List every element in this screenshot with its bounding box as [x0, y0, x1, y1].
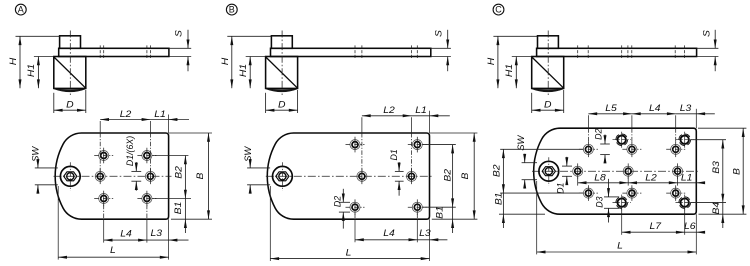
- countersunk hole A top-left: [99, 151, 109, 161]
- clamp body block side view B: [266, 57, 298, 89]
- dimension D ext lines A: [53, 93, 55, 113]
- dimension L3 C: [676, 113, 697, 115]
- dimension H1 B: [249, 57, 251, 89]
- hole centerline tick on bar at x=150: [149, 45, 151, 59]
- hex-socket boss C: [539, 161, 559, 181]
- svg-text:L2: L2: [383, 105, 395, 116]
- tapped hole C top 1: [616, 134, 628, 146]
- svg-text:B2: B2: [492, 164, 503, 177]
- dimension SW ext lines B: [247, 167, 270, 169]
- svg-text:D1: D1: [556, 182, 566, 193]
- dimension B2/B1/B ext lines B: [423, 144, 456, 146]
- dimension L2 C: [628, 182, 677, 184]
- serrated bottom face of block A: [54, 89, 86, 92]
- svg-text:SW: SW: [516, 134, 526, 151]
- dimension H A: [19, 36, 21, 88]
- svg-text:A: A: [18, 4, 24, 14]
- dimension H1 ext line C: [512, 56, 532, 58]
- dimension SW B: [249, 159, 251, 168]
- dimension B4 C: [722, 203, 724, 215]
- svg-text:L4: L4: [120, 229, 132, 240]
- countersunk hole A bottom-right: [142, 194, 152, 204]
- serrated bottom face of block C: [532, 89, 564, 92]
- view label circled C: [493, 4, 504, 15]
- svg-text:D: D: [278, 100, 285, 111]
- countersunk hole C middle 2: [623, 166, 633, 176]
- dimension L ext line A: [57, 186, 59, 260]
- dimension L ext line B: [269, 186, 271, 261]
- dimension L5 C: [588, 113, 632, 115]
- dimension D1/(6X) ext lines: [131, 170, 141, 172]
- countersunk hole C middle 1: [573, 166, 583, 176]
- svg-text:B: B: [732, 168, 743, 175]
- svg-text:L5: L5: [605, 103, 617, 114]
- hole centerline tick on bar at x=355: [354, 45, 356, 59]
- svg-text:D1/(6X): D1/(6X): [125, 136, 135, 166]
- hole centerline tick on bar at x=417: [416, 45, 418, 59]
- countersunk hole C top row 2: [627, 144, 637, 154]
- plate horizontal centerline B: [266, 175, 433, 177]
- plate bar side view B: [271, 48, 431, 56]
- dimension H ext line B: [227, 35, 271, 37]
- svg-text:SW: SW: [31, 145, 41, 162]
- dimension D1/(6X): [135, 162, 137, 171]
- dimension B A: [208, 133, 210, 219]
- hole centerline tick on bar at x=147: [146, 45, 148, 59]
- dimension D C: [532, 109, 564, 111]
- svg-text:L: L: [346, 248, 352, 259]
- dimension D1: [566, 157, 568, 166]
- svg-text:D2: D2: [333, 196, 343, 207]
- svg-text:H1: H1: [26, 64, 37, 77]
- dimension D A: [54, 109, 86, 111]
- dimension S A: [187, 30, 189, 49]
- svg-text:B: B: [195, 172, 206, 179]
- dimension D3 ext lines: [604, 196, 619, 198]
- dimension L1 C: [678, 182, 697, 184]
- dimension L1 A: [150, 119, 168, 121]
- svg-text:L4: L4: [649, 103, 661, 114]
- countersunk hole C bottom row 3: [671, 188, 681, 198]
- svg-text:D3: D3: [595, 196, 605, 207]
- svg-text:S: S: [174, 30, 185, 37]
- countersunk hole A bottom-left: [99, 194, 109, 204]
- tapped hole C top 2: [679, 134, 691, 146]
- dimension L4 B: [355, 239, 417, 241]
- svg-text:SW: SW: [243, 145, 253, 162]
- mounting plate outline top view A: [55, 133, 168, 219]
- dimension SW A: [37, 159, 39, 168]
- dimension B3/B4/B ext lines C: [691, 139, 726, 141]
- dimension S ext lines C: [697, 47, 719, 49]
- dimension H1 ext line B: [246, 56, 266, 58]
- svg-text:L3: L3: [151, 229, 163, 240]
- screw head side view B: [271, 36, 292, 49]
- dimension L2 B: [362, 115, 412, 117]
- dimension S C: [714, 30, 716, 49]
- hole centerline tick on bar at x=104: [103, 45, 105, 59]
- svg-text:H: H: [220, 57, 231, 65]
- svg-text:L: L: [617, 241, 623, 252]
- svg-text:H1: H1: [504, 64, 515, 77]
- svg-text:C: C: [495, 4, 502, 14]
- dimension L8/L2/L1 ext lines C: [577, 177, 579, 186]
- dimension B3 C: [722, 140, 724, 203]
- dimension B1 B: [452, 207, 454, 219]
- dimension D2 ext lines: [600, 143, 610, 145]
- dimension H1 ext line A: [34, 56, 54, 58]
- svg-text:L3: L3: [680, 103, 692, 114]
- dimension L6 C: [685, 231, 697, 233]
- svg-text:B3: B3: [711, 161, 722, 174]
- svg-text:B1: B1: [173, 202, 184, 215]
- dimension B C: [742, 128, 744, 214]
- dimension D3: [608, 179, 610, 197]
- svg-text:D: D: [544, 100, 551, 111]
- dimension B1 C: [502, 193, 504, 214]
- svg-text:B: B: [460, 172, 471, 179]
- dimension L7/L6 ext lines C: [621, 209, 623, 214]
- view label circled A: [15, 4, 26, 15]
- countersunk hole A middle-left: [95, 171, 105, 181]
- dimension L3 A: [147, 239, 169, 241]
- hex-socket boss A: [60, 166, 80, 186]
- plate bar side view C: [537, 48, 697, 56]
- hole centerline tick on bar at x=588: [587, 45, 589, 59]
- dimension H ext line C: [493, 35, 537, 37]
- svg-text:L1: L1: [681, 173, 693, 184]
- dimension L ext line C: [536, 181, 538, 254]
- countersunk hole B top-right: [412, 140, 422, 150]
- dimension S ext lines A: [169, 47, 191, 49]
- dimension D2: [342, 189, 344, 203]
- dimension D1 ext lines: [562, 165, 572, 167]
- dimension SW ext lines A: [35, 167, 58, 169]
- hole centerline tick on bar at x=675: [674, 45, 676, 59]
- view label circled B: [226, 4, 237, 15]
- countersunk hole C top row 1: [583, 144, 593, 154]
- dimension L B: [270, 258, 429, 260]
- dimension SW ext lines C: [522, 162, 537, 164]
- plate bar side view A: [59, 48, 169, 56]
- dimension B2 C: [502, 149, 504, 193]
- dimension D B: [266, 109, 298, 111]
- svg-text:H: H: [9, 57, 20, 65]
- svg-text:B1: B1: [494, 192, 505, 205]
- dimension D2 ext lines: [339, 201, 350, 203]
- countersunk hole B bottom-left: [350, 202, 360, 212]
- svg-text:S: S: [702, 30, 713, 37]
- plate horizontal centerline C: [532, 170, 699, 172]
- svg-text:L7: L7: [649, 221, 661, 232]
- svg-text:B2: B2: [443, 169, 454, 182]
- dimension D ext lines B: [265, 93, 267, 113]
- dimension L7 C: [622, 231, 685, 233]
- dimension B B: [473, 133, 475, 219]
- screw head side view C: [538, 36, 559, 49]
- chamfer diagonal on block C: [532, 57, 564, 88]
- svg-text:B4: B4: [711, 201, 722, 214]
- dimension L4/L3 ext lines A: [103, 205, 105, 219]
- dimension B2/B1/B ext lines A: [152, 155, 188, 157]
- svg-text:L2: L2: [120, 109, 132, 120]
- hole centerline tick on bar at x=362: [361, 45, 363, 59]
- svg-text:L6: L6: [684, 221, 696, 232]
- plate horizontal centerline A: [54, 175, 172, 177]
- hole centerline tick on bar at x=622: [621, 45, 623, 59]
- screw head side view A: [60, 36, 81, 49]
- svg-text:B1: B1: [435, 206, 446, 219]
- tapped hole C bottom 2: [679, 197, 691, 209]
- dimension B2 B: [452, 145, 454, 208]
- svg-text:L: L: [110, 245, 116, 256]
- clamp body block side view A: [54, 57, 86, 89]
- svg-text:L1: L1: [154, 109, 166, 120]
- dimension D1 ext lines: [395, 170, 404, 172]
- dimension S B: [447, 30, 449, 49]
- centerline of screw C: [547, 31, 549, 96]
- mounting plate outline top view B: [267, 133, 429, 219]
- svg-text:L2: L2: [645, 173, 657, 184]
- dimension L4 A: [104, 239, 147, 241]
- chamfer diagonal on block A: [54, 57, 86, 88]
- hex-socket boss B: [273, 166, 293, 186]
- dimension B2/B1 ext lines C: [500, 148, 583, 150]
- hole centerline tick on bar at x=628: [627, 45, 629, 59]
- countersunk hole B bottom-right: [412, 202, 422, 212]
- svg-text:B2: B2: [174, 166, 185, 179]
- dimension H B: [231, 36, 233, 88]
- dimension B2 A: [184, 156, 186, 199]
- dimension D1: [398, 162, 400, 171]
- dimension H1 C: [515, 57, 517, 89]
- svg-text:H: H: [486, 57, 497, 65]
- countersunk hole A top-right: [142, 151, 152, 161]
- dimension L2/L1 ext lines A: [99, 121, 101, 133]
- dimension L4/L3 ext lines B: [354, 214, 356, 220]
- dimension D ext lines C: [531, 93, 533, 113]
- serrated bottom face of block B: [266, 89, 298, 92]
- dimension L2/L1 ext lines B: [361, 117, 363, 133]
- countersunk hole C middle 3: [673, 166, 683, 176]
- svg-text:D2: D2: [594, 128, 604, 139]
- dimension L C: [537, 251, 697, 253]
- countersunk hole B top-left: [350, 140, 360, 150]
- svg-text:L8: L8: [594, 173, 606, 184]
- countersunk hole C top row 3: [671, 144, 681, 154]
- svg-text:L4: L4: [383, 228, 395, 239]
- dimension SW C: [524, 154, 526, 163]
- hole centerline tick on bar at x=684: [684, 45, 686, 59]
- countersunk hole B middle-left: [357, 171, 367, 181]
- mounting plate outline top view C: [534, 128, 697, 214]
- countersunk hole B middle-right: [407, 171, 417, 181]
- dimension L1 B: [412, 115, 430, 117]
- svg-text:D: D: [66, 100, 73, 111]
- dimension L2 A: [100, 119, 150, 121]
- svg-text:L1: L1: [415, 105, 427, 116]
- hole centerline tick on bar at x=412: [411, 45, 413, 59]
- dimension L4 C: [632, 113, 676, 115]
- chamfer diagonal on block B: [266, 57, 298, 88]
- hole centerline tick on bar at x=100: [99, 45, 101, 59]
- tapped hole C bottom 1: [616, 197, 628, 209]
- dimension L3 B: [417, 239, 429, 241]
- dimension S ext lines B: [431, 47, 451, 49]
- countersunk hole C bottom row 1: [583, 188, 593, 198]
- svg-text:S: S: [434, 30, 445, 37]
- countersunk hole A middle-right: [145, 171, 155, 181]
- hole centerline tick on bar at x=578: [577, 45, 579, 59]
- dimension L8 C: [578, 182, 629, 184]
- dimension L A: [58, 256, 168, 258]
- centerline of screw B: [281, 31, 283, 96]
- svg-text:B: B: [229, 4, 235, 14]
- centerline of screw A: [69, 31, 71, 96]
- dimension B1 A: [184, 199, 186, 220]
- dimension H1 A: [37, 57, 39, 89]
- svg-text:H1: H1: [238, 64, 249, 77]
- dimension H C: [497, 36, 499, 88]
- countersunk hole C bottom row 2: [627, 188, 637, 198]
- dimension L5/L4/L3 ext lines C: [587, 115, 589, 128]
- clamp body block side view C: [532, 57, 564, 89]
- dimension H ext line A: [16, 35, 60, 37]
- svg-text:D1: D1: [389, 149, 399, 160]
- svg-text:L3: L3: [419, 228, 431, 239]
- dimension D2: [604, 135, 606, 145]
- hole centerline tick on bar at x=632: [631, 45, 633, 59]
